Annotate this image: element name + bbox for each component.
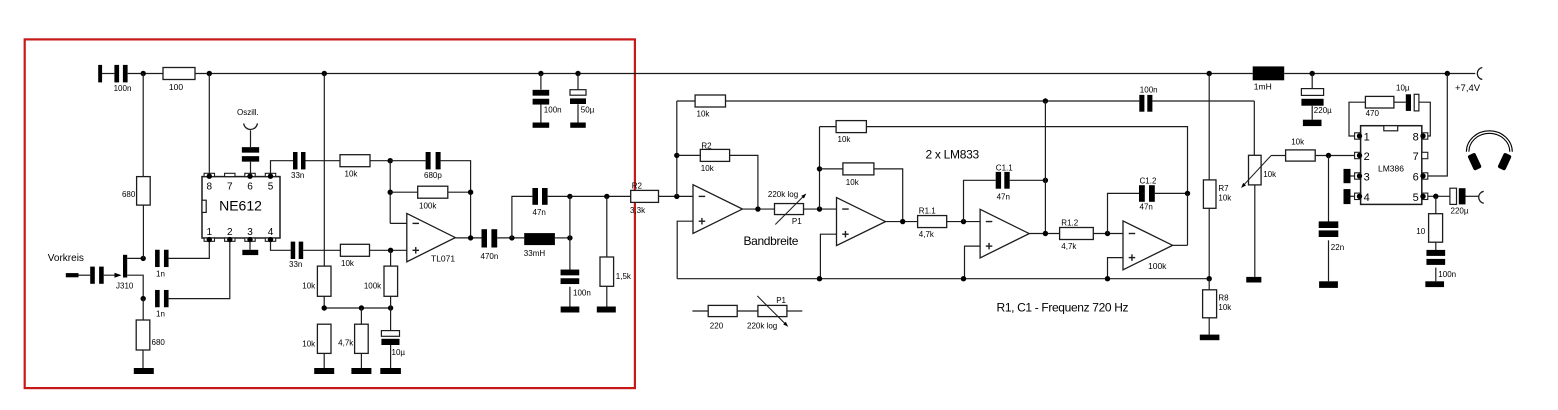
node (op2 - input) <box>817 206 822 211</box>
resistor 10k (divider top) <box>302 266 331 296</box>
node (op1 out) <box>755 206 760 211</box>
ground <box>314 368 334 374</box>
node (rail / 680 drain column) <box>141 71 146 76</box>
resistor 680 (drain load) <box>122 177 150 206</box>
resistor 1,5k <box>600 257 632 286</box>
wire (top supply rail) <box>195 73 1253 75</box>
svg-text:220k log: 220k log <box>747 322 777 331</box>
ground (pin 3) <box>242 250 258 255</box>
ground <box>1425 281 1444 287</box>
amplifier IC LM386 (DIP-8) <box>1355 126 1428 205</box>
capacitor 1n (drain to pin1) <box>155 250 169 279</box>
svg-text:22n: 22n <box>1331 243 1344 252</box>
svg-text:47n: 47n <box>1140 202 1153 211</box>
capacitor C1.1 47n <box>996 163 1014 201</box>
wire (op4 out) <box>1173 244 1188 246</box>
wire <box>947 221 980 223</box>
wire <box>142 299 144 320</box>
resistor R2 10k (op1 feedback) <box>700 142 729 173</box>
svg-text:R1, C1 - Frequenz 720 Hz: R1, C1 - Frequenz 720 Hz <box>997 300 1129 314</box>
wire <box>677 100 695 102</box>
wire (output) <box>455 237 481 239</box>
wire (100n branch) <box>569 238 571 273</box>
svg-text:10k: 10k <box>345 170 359 179</box>
input terminal bar (top left) <box>98 65 102 83</box>
wire (rail to divider) <box>323 74 325 267</box>
svg-text:5: 5 <box>268 182 274 193</box>
ground <box>1303 120 1322 126</box>
wire (+ to bias) <box>1108 258 1124 279</box>
wire <box>1208 208 1210 278</box>
svg-text:1mH: 1mH <box>1254 82 1272 92</box>
wire (to pin 8) <box>1419 102 1430 136</box>
wire <box>1466 195 1479 197</box>
resistor 100k (feedback) <box>418 186 448 210</box>
svg-text:R1.1: R1.1 <box>919 207 936 216</box>
wire (pin5 out) <box>1428 195 1450 197</box>
node (TL071 out) <box>468 235 473 240</box>
label 2 x LM833 <box>926 147 980 161</box>
svg-text:3: 3 <box>1364 172 1370 184</box>
wire <box>569 287 571 307</box>
svg-text:C1.2: C1.2 <box>1140 176 1157 185</box>
svg-text:3,3k: 3,3k <box>630 206 646 215</box>
wire (op1 output) <box>742 208 774 210</box>
ground (pin 4) <box>1344 189 1355 204</box>
ground <box>1246 277 1261 283</box>
wire (pin1 gain loop) <box>1349 102 1365 136</box>
svg-text:2: 2 <box>1364 151 1370 163</box>
node <box>567 194 572 199</box>
wire <box>497 237 524 239</box>
resistor 4,7k <box>338 324 368 353</box>
wire (wiper) <box>1271 155 1286 157</box>
label R1 C1 Frequenz <box>997 300 1129 314</box>
svg-text:220k log: 220k log <box>768 190 798 199</box>
node (op1 - input) <box>674 194 679 199</box>
capacitor 100n (zobel) <box>1426 250 1456 279</box>
op-amp U4B LM833 <box>1123 221 1173 270</box>
op-amp U3B LM833 <box>837 198 886 246</box>
svg-text:P1: P1 <box>792 217 802 226</box>
capacitor 100n (supply decoupling) <box>533 90 562 115</box>
wire <box>169 241 230 298</box>
node (source) <box>141 296 146 301</box>
ground <box>1200 335 1220 341</box>
wire (- column) <box>676 101 678 196</box>
wire <box>820 126 837 128</box>
resistor 10k (divider bottom) <box>302 324 331 353</box>
svg-text:100n: 100n <box>1438 270 1456 279</box>
svg-text:R7: R7 <box>1218 184 1229 193</box>
wire <box>548 195 570 197</box>
ground (pin 3) <box>1344 169 1355 183</box>
svg-text:+7,4V: +7,4V <box>1455 83 1481 94</box>
wire <box>1394 101 1406 103</box>
node <box>1185 191 1190 196</box>
wire <box>820 168 843 170</box>
svg-text:100n: 100n <box>1140 85 1158 94</box>
svg-text:47n: 47n <box>997 193 1010 202</box>
capacitor 100n (antenna coupling) <box>114 65 132 93</box>
ground <box>570 123 586 128</box>
wire (pin3 to ground) <box>249 241 251 250</box>
wire <box>128 73 163 75</box>
svg-text:10k: 10k <box>1218 303 1232 312</box>
wire (pin4 down) <box>271 241 291 250</box>
svg-text:10k: 10k <box>302 282 316 291</box>
wire (C1.1 branch) <box>964 180 996 221</box>
resistor 470 (gain) <box>1365 96 1394 118</box>
wire <box>169 241 210 258</box>
svg-text:10k: 10k <box>846 178 860 187</box>
svg-text:1: 1 <box>207 227 213 238</box>
svg-text:47n: 47n <box>533 208 546 217</box>
ground <box>380 368 401 374</box>
wire <box>1010 179 1046 181</box>
wire <box>555 237 570 239</box>
svg-text:4: 4 <box>1364 192 1370 204</box>
svg-text:50µ: 50µ <box>581 106 595 115</box>
svg-text:1,5k: 1,5k <box>616 272 632 281</box>
wire <box>874 169 903 222</box>
wire (+ input to bias rail) <box>677 221 693 279</box>
wire <box>441 161 471 238</box>
svg-text:LM386: LM386 <box>1378 164 1404 174</box>
wire <box>370 160 390 162</box>
svg-text:10k: 10k <box>1218 193 1232 202</box>
node (rail / bias divider) <box>322 71 327 76</box>
capacitor 100n (filter) <box>561 270 591 298</box>
wire (47n branch up) <box>512 196 533 238</box>
terminal (phones jack) <box>1479 191 1484 203</box>
svg-text:33n: 33n <box>289 260 302 269</box>
svg-text:Vorkreis: Vorkreis <box>48 253 84 264</box>
wire (rail to 100n) <box>540 74 542 90</box>
svg-text:TL071: TL071 <box>431 253 455 263</box>
svg-text:10µ: 10µ <box>1396 84 1410 93</box>
wire <box>1093 233 1123 235</box>
node <box>817 166 822 171</box>
wire (+ to bias) <box>965 246 981 279</box>
wire <box>1208 279 1210 290</box>
terminal (oscillator input) <box>244 123 258 129</box>
op-amp U2 TL071 <box>407 213 456 263</box>
node (rail / 100n) <box>538 71 543 76</box>
inductor 33mH <box>524 233 555 258</box>
op-amp U3A LM833 <box>693 185 742 234</box>
wire with arrow (gate of J310) <box>104 273 122 278</box>
node (rail / R7) <box>1207 71 1212 76</box>
label 100k <box>1148 261 1167 271</box>
wire <box>323 296 325 308</box>
op-amp/mixer IC NE612 (DIP-8) <box>202 173 280 242</box>
node (1,5k tap) <box>604 194 609 199</box>
svg-text:10: 10 <box>1416 227 1425 236</box>
node <box>1043 98 1048 103</box>
wire <box>1208 318 1210 335</box>
svg-text:1: 1 <box>1364 132 1370 144</box>
node (op2 out) <box>900 219 905 224</box>
node (op3 - input) <box>961 219 966 224</box>
node <box>674 153 679 158</box>
wire (fb2 row) <box>866 127 1187 194</box>
node <box>388 305 393 310</box>
wire (rail to 50u) <box>577 74 579 90</box>
wire <box>677 154 701 156</box>
svg-text:R2: R2 <box>632 182 643 191</box>
wire <box>448 191 471 193</box>
svg-text:C1.1: C1.1 <box>996 163 1013 172</box>
resistor R1.1 4,7k <box>918 207 947 240</box>
svg-text:P1: P1 <box>776 296 786 305</box>
node <box>1207 276 1212 281</box>
resistor 10k (global feedback) <box>695 95 725 118</box>
svg-text:10k: 10k <box>701 164 715 173</box>
svg-text:33n: 33n <box>291 171 304 180</box>
node (TL071 - input net) <box>388 158 393 163</box>
capacitor 10u electrolytic <box>381 331 405 357</box>
wire (pin5 up) <box>271 161 294 174</box>
svg-text:2 x LM833: 2 x LM833 <box>926 147 980 161</box>
capacitor C1.2 47n <box>1139 176 1157 211</box>
resistor 10k (to TL071 -) <box>340 155 370 179</box>
ground <box>533 123 550 128</box>
svg-text:7: 7 <box>1413 151 1419 163</box>
wire <box>569 196 571 238</box>
resistor 100 <box>163 68 195 93</box>
wire (to R2) <box>570 195 631 197</box>
wire <box>730 155 758 209</box>
wire (rail to R7) <box>1208 74 1210 180</box>
svg-text:R1.2: R1.2 <box>1061 218 1078 227</box>
potentiometer P1 220k log (legend) <box>747 296 788 331</box>
node (op3 out) <box>1043 231 1048 236</box>
wire (- column) <box>819 127 821 209</box>
svg-text:100k: 100k <box>1148 261 1167 271</box>
wire (to volume pot) <box>1152 100 1254 102</box>
wire <box>79 274 91 276</box>
svg-text:R2: R2 <box>701 142 712 151</box>
wire (rail to 220u) <box>1311 74 1313 89</box>
resistor R2 3,3k <box>630 182 659 215</box>
wire (filter out to pot) <box>1253 101 1255 155</box>
wire <box>306 160 341 162</box>
wire (C1.2 branch) <box>1108 193 1140 233</box>
svg-text:4,7k: 4,7k <box>338 339 354 348</box>
capacitor (gate coupling) <box>90 267 104 284</box>
resistor 680 (source) <box>136 320 165 350</box>
wire <box>370 249 407 251</box>
node <box>961 276 966 281</box>
svg-text:8: 8 <box>1413 132 1419 144</box>
wire <box>804 208 837 210</box>
node (pin2 / 22n) <box>1326 153 1331 158</box>
svg-text:1n: 1n <box>156 270 165 279</box>
svg-text:NE612: NE612 <box>219 198 262 214</box>
svg-text:2: 2 <box>227 227 233 238</box>
label Oszill. <box>237 108 259 117</box>
wire <box>390 250 392 308</box>
capacitor 47n (parallel resonant) <box>532 188 547 217</box>
label Bandbreite <box>744 234 799 248</box>
resistor R8 10k <box>1203 290 1233 318</box>
capacitor 10u (gain) <box>1396 84 1419 111</box>
svg-text:6: 6 <box>247 182 253 193</box>
wire <box>323 353 325 368</box>
bias rail (half supply) <box>677 278 1209 280</box>
wire (+ to bias) <box>820 234 836 279</box>
ground <box>134 368 154 374</box>
headphones icon <box>1466 131 1512 171</box>
node <box>567 235 572 240</box>
resistor 10k (LM386 input) <box>1286 137 1316 161</box>
capacitor 50u electrolytic <box>570 90 595 115</box>
svg-text:6: 6 <box>1413 172 1419 184</box>
wire <box>540 104 542 122</box>
ground <box>597 307 616 313</box>
wire <box>142 350 144 368</box>
capacitor 470n <box>481 229 499 261</box>
capacitor 680p (feedback) <box>424 152 442 180</box>
capacitor 33n (pin5) <box>291 152 306 180</box>
capacitor 1n (source to pin2) <box>155 290 169 319</box>
wire (rail to pin 8) <box>208 74 210 174</box>
svg-text:7: 7 <box>227 182 233 193</box>
wire (feedback row to op3 out) <box>726 100 1140 102</box>
wire (op2 out) <box>886 221 918 223</box>
wire (op4 out column) <box>1187 193 1189 245</box>
potentiometer 10k (volume) <box>1241 155 1277 188</box>
wire <box>390 308 392 368</box>
wire (pin6 to rail) <box>1428 74 1448 177</box>
svg-text:680p: 680p <box>424 171 442 180</box>
svg-text:1n: 1n <box>156 310 165 319</box>
svg-text:10k: 10k <box>341 259 355 268</box>
wire <box>1435 268 1437 282</box>
wire <box>390 160 425 162</box>
node (rail / 220u) <box>1310 71 1315 76</box>
svg-text:470: 470 <box>1366 109 1380 118</box>
wire <box>250 130 252 147</box>
wire <box>1311 106 1313 120</box>
svg-text:680: 680 <box>152 338 166 347</box>
node <box>468 190 473 195</box>
node <box>817 276 822 281</box>
svg-text:100: 100 <box>169 82 183 92</box>
wire <box>142 205 144 258</box>
wire <box>737 310 758 312</box>
node (drain) <box>141 256 146 261</box>
ground <box>1319 281 1338 288</box>
svg-text:R8: R8 <box>1218 294 1229 303</box>
svg-text:100k: 100k <box>419 201 437 210</box>
wire <box>692 310 708 312</box>
capacitor 33n (pin4) <box>289 242 303 269</box>
wire (source) <box>127 275 143 298</box>
svg-text:4,7k: 4,7k <box>1061 242 1077 251</box>
node <box>509 235 514 240</box>
wire <box>606 196 608 306</box>
svg-text:220: 220 <box>710 321 724 330</box>
node <box>1043 178 1048 183</box>
svg-text:Oszill.: Oszill. <box>237 108 259 117</box>
svg-text:10k: 10k <box>838 135 852 144</box>
op-amp U4A LM833 <box>980 209 1029 258</box>
wire (op3 out) <box>1029 233 1059 235</box>
capacitor 220u electrolytic <box>1301 89 1332 115</box>
node (output) <box>1433 194 1438 199</box>
supply terminal +7,4V <box>1455 68 1482 95</box>
svg-text:100n: 100n <box>573 289 591 298</box>
svg-text:Bandbreite: Bandbreite <box>744 234 799 248</box>
svg-text:10k: 10k <box>1291 137 1305 146</box>
wire (zobel branch) <box>1435 196 1437 213</box>
capacitor 22n <box>1319 221 1344 252</box>
ground <box>351 368 371 374</box>
svg-text:10k: 10k <box>302 340 316 349</box>
capacitor (oscillator coupling) <box>242 147 259 162</box>
wire <box>1435 242 1437 253</box>
wire (rail after 1mH) <box>1284 73 1475 75</box>
input terminal (Vorkreis) <box>66 273 79 277</box>
potentiometer P1 220k log (Bandbreite) <box>768 190 806 226</box>
ground <box>561 307 580 313</box>
svg-text:10µ: 10µ <box>392 348 406 357</box>
wire <box>787 310 802 312</box>
svg-text:220µ: 220µ <box>1314 106 1332 115</box>
wire <box>1315 155 1354 157</box>
svg-text:470n: 470n <box>481 252 499 261</box>
red highlight frame <box>25 39 635 388</box>
svg-text:33mH: 33mH <box>524 249 546 258</box>
wire (22n branch) <box>1328 156 1330 225</box>
resistor 220 (legend) <box>708 305 737 330</box>
svg-text:100k: 100k <box>364 282 382 291</box>
resistor 10 (zobel) <box>1416 214 1442 243</box>
capacitor 100n (output coupling) <box>1139 85 1157 111</box>
inductor 1mH <box>1253 66 1285 91</box>
svg-text:220µ: 220µ <box>1451 206 1469 215</box>
wire <box>577 104 579 122</box>
node (rail / 50u) <box>575 71 580 76</box>
svg-text:5: 5 <box>1413 192 1419 204</box>
svg-text:10k: 10k <box>697 109 711 118</box>
resistor 10k (to TL071 +) <box>340 244 369 267</box>
wire <box>250 162 252 174</box>
svg-text:J310: J310 <box>116 281 134 290</box>
resistor R1.2 4,7k <box>1060 218 1094 251</box>
svg-text:3: 3 <box>247 227 253 238</box>
resistor 10k (op2 feedback) <box>843 163 874 187</box>
node <box>359 305 364 310</box>
wire <box>390 191 418 193</box>
svg-text:680: 680 <box>122 190 136 199</box>
wire (op3 out column) <box>1044 101 1046 234</box>
node (op4 - input) <box>1105 231 1110 236</box>
wire <box>102 73 114 75</box>
node (rail / LM386 pin6) <box>1445 71 1450 76</box>
svg-text:4: 4 <box>268 227 274 238</box>
node <box>388 190 393 195</box>
resistor 10k (feedback from op4) <box>836 121 866 145</box>
svg-text:4,7k: 4,7k <box>919 230 935 239</box>
resistor R7 10k <box>1203 180 1232 208</box>
node (TL071 + bias) <box>388 248 393 253</box>
wire (- column) <box>389 161 391 224</box>
svg-text:100n: 100n <box>114 84 132 93</box>
wire <box>303 249 340 251</box>
